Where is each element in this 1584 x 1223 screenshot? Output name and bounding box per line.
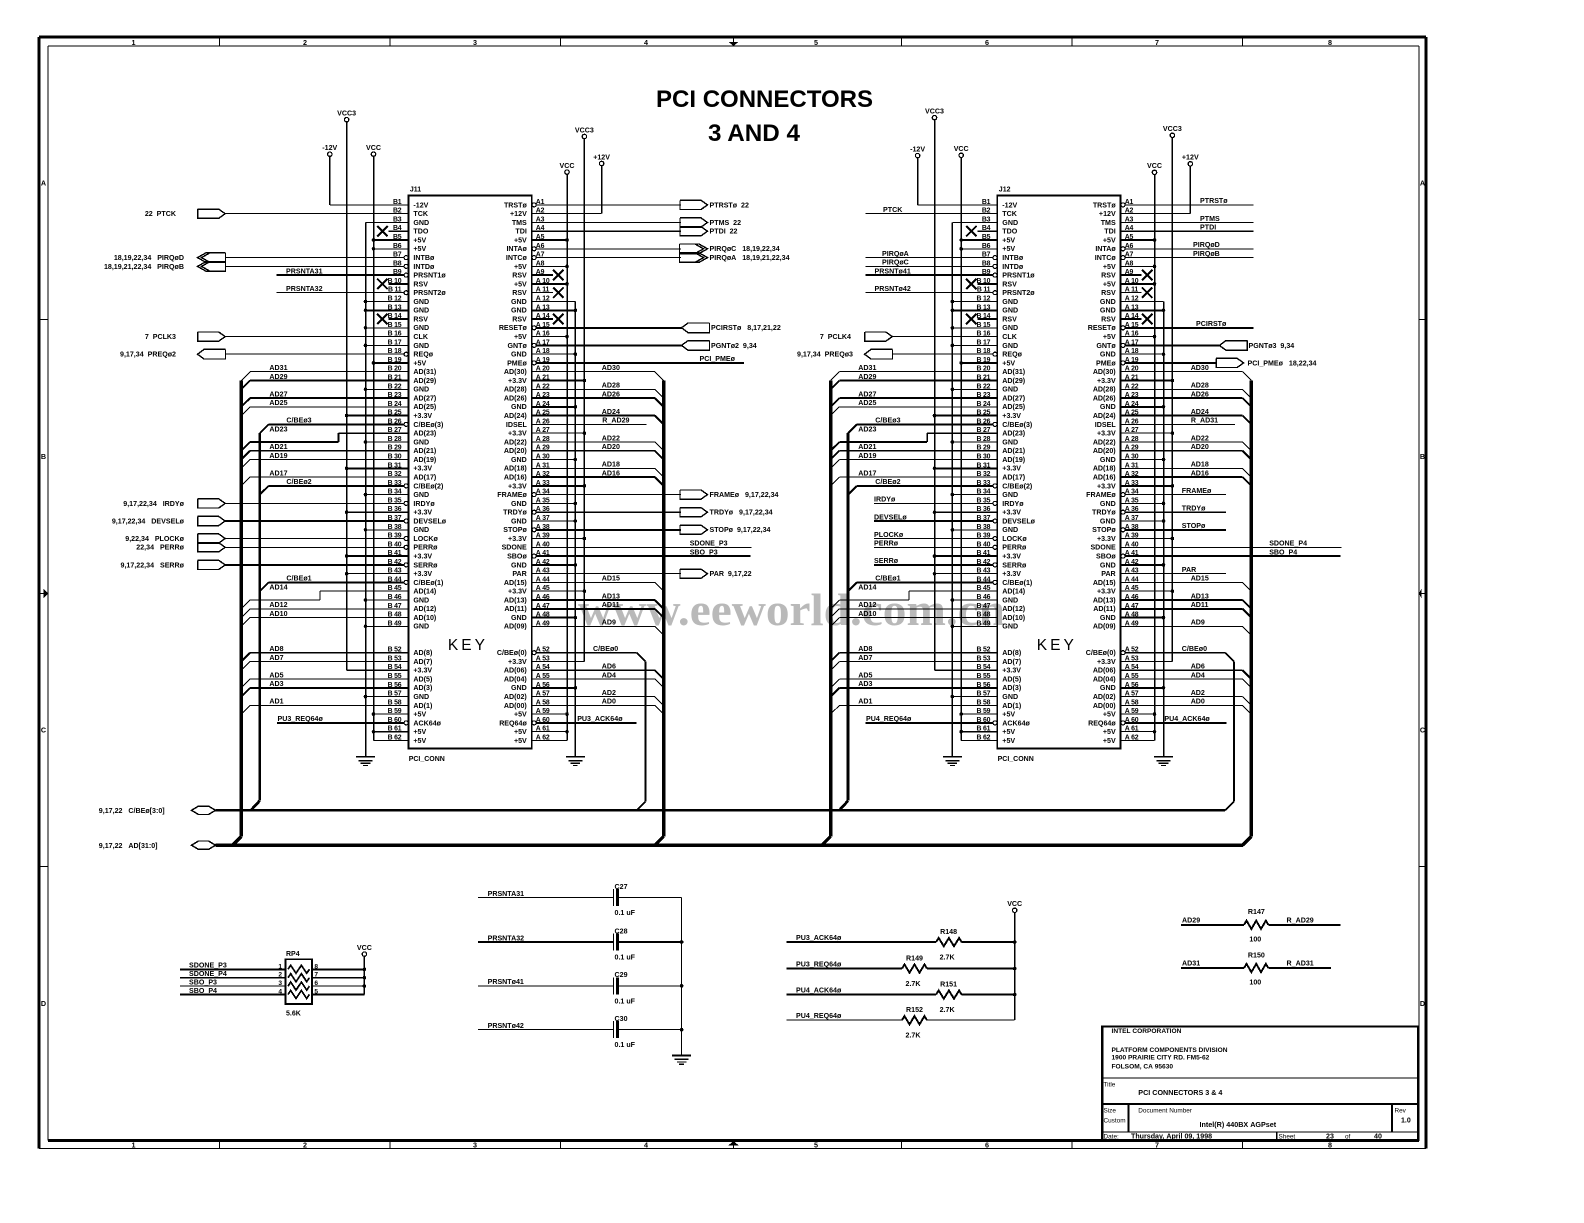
svg-text:AD(28): AD(28): [1093, 386, 1116, 394]
svg-text:+5V: +5V: [1002, 737, 1015, 745]
svg-text:PU4_ACK64ø: PU4_ACK64ø: [1164, 715, 1210, 723]
svg-text:AD4: AD4: [602, 671, 616, 679]
svg-text:2: 2: [278, 972, 282, 979]
resistor R152 2.7K net PU4_REQ64ø: [787, 1019, 903, 1021]
svg-text:R151: R151: [940, 981, 957, 989]
capacitor common ground vertical: [681, 898, 683, 1056]
svg-text:C/BEø(3): C/BEø(3): [1002, 421, 1033, 429]
svg-text:1: 1: [278, 963, 282, 970]
svg-text:PCI_PMEø: PCI_PMEø: [700, 355, 736, 363]
svg-text:AD(5): AD(5): [1002, 675, 1022, 683]
svg-text:AD(21): AD(21): [413, 447, 436, 455]
svg-text:GND: GND: [413, 219, 429, 227]
svg-text:0.1 uF: 0.1 uF: [615, 909, 636, 917]
series resistor R147 100 ohm: [1181, 924, 1244, 926]
svg-text:GND: GND: [413, 386, 429, 394]
svg-text:AD(10): AD(10): [413, 614, 436, 622]
svg-text:3: 3: [473, 1141, 477, 1150]
svg-text:GND: GND: [413, 324, 429, 332]
svg-text:AD31: AD31: [269, 364, 287, 372]
svg-text:GND: GND: [1100, 614, 1116, 622]
svg-text:AD0: AD0: [1191, 698, 1205, 706]
svg-text:GND: GND: [1100, 298, 1116, 306]
svg-text:AD(09): AD(09): [504, 623, 527, 631]
svg-text:R148: R148: [940, 928, 957, 936]
svg-text:GND: GND: [511, 298, 527, 306]
svg-text:GNTø: GNTø: [1096, 342, 1116, 350]
svg-text:Rev: Rev: [1395, 1107, 1407, 1114]
svg-text:GND: GND: [1002, 307, 1018, 315]
svg-text:9,17,22,34 IRDYø: 9,17,22,34 IRDYø: [123, 500, 184, 508]
svg-text:AD(25): AD(25): [1002, 403, 1025, 411]
svg-text:AD(06): AD(06): [504, 667, 527, 675]
svg-text:INTBø: INTBø: [413, 254, 435, 262]
ground symbol left of J12: [943, 756, 962, 758]
svg-text:SERRø: SERRø: [874, 557, 899, 565]
svg-text:VCC: VCC: [560, 162, 575, 170]
ground symbol left of J11: [356, 756, 375, 758]
svg-text:PRSNTA32: PRSNTA32: [286, 285, 323, 293]
svg-text:AD(17): AD(17): [1002, 474, 1025, 482]
svg-text:GND: GND: [1002, 526, 1018, 534]
svg-text:AD17: AD17: [858, 469, 876, 477]
svg-text:PIRQøD: PIRQøD: [1193, 241, 1220, 249]
svg-text:GND: GND: [413, 596, 429, 604]
svg-text:AD(02): AD(02): [1093, 693, 1116, 701]
svg-text:AD(26): AD(26): [504, 395, 527, 403]
svg-text:+5V: +5V: [413, 728, 426, 736]
svg-text:C/BEø3: C/BEø3: [875, 417, 900, 425]
svg-text:AD(11): AD(11): [504, 605, 527, 613]
ground symbol right of J11: [566, 756, 585, 758]
svg-text:+5V: +5V: [514, 737, 527, 745]
svg-text:AD0: AD0: [602, 698, 616, 706]
svg-text:PTCK: PTCK: [883, 206, 903, 214]
svg-text:1: 1: [132, 38, 136, 47]
ground rail left of J11: [365, 223, 367, 757]
svg-text:STOPø: STOPø: [503, 526, 527, 534]
RP4 pin 7 wire to VCC: [312, 977, 365, 979]
svg-text:AD(02): AD(02): [504, 693, 527, 701]
svg-text:AD23: AD23: [269, 426, 287, 434]
RP4 pin 2 net SDONE_P4: [180, 977, 286, 979]
svg-text:C/BEø(2): C/BEø(2): [1002, 482, 1033, 490]
svg-text:TMS: TMS: [1101, 219, 1116, 227]
svg-text:PRSNTA32: PRSNTA32: [488, 934, 525, 942]
svg-text:0.1 uF: 0.1 uF: [615, 954, 636, 962]
C/BE bus vertical left of J12: [847, 433, 850, 801]
svg-text:R147: R147: [1248, 908, 1265, 916]
svg-text:AD(16): AD(16): [504, 474, 527, 482]
svg-text:AD10: AD10: [269, 610, 287, 618]
svg-text:C/BEø2: C/BEø2: [875, 478, 900, 486]
svg-text:AD(00): AD(00): [1093, 702, 1116, 710]
svg-text:PCI_CONN: PCI_CONN: [409, 756, 445, 763]
svg-text:+3.3V: +3.3V: [508, 377, 527, 385]
svg-text:AD(16): AD(16): [1093, 474, 1116, 482]
svg-text:1900 PRAIRIE CITY RD. FM5-62: 1900 PRAIRIE CITY RD. FM5-62: [1112, 1055, 1210, 1062]
svg-text:RSV: RSV: [1101, 289, 1116, 297]
svg-text:GND: GND: [1100, 561, 1116, 569]
svg-text:9,17,22 AD[31:0]: 9,17,22 AD[31:0]: [99, 842, 158, 850]
svg-text:AD(13): AD(13): [1093, 596, 1116, 604]
svg-text:VCC: VCC: [1007, 900, 1022, 908]
svg-text:GND: GND: [1002, 491, 1018, 499]
svg-text:LOCKø: LOCKø: [413, 535, 438, 543]
svg-text:SERRø: SERRø: [1002, 561, 1027, 569]
svg-text:GND: GND: [413, 342, 429, 350]
svg-text:GNTø: GNTø: [507, 342, 527, 350]
svg-text:+3.3V: +3.3V: [508, 535, 527, 543]
svg-text:AD23: AD23: [858, 426, 876, 434]
svg-text:SBO_P4: SBO_P4: [1269, 548, 1297, 556]
svg-text:AD(15): AD(15): [504, 579, 527, 587]
svg-text:AD19: AD19: [858, 452, 876, 460]
svg-text:+3.3V: +3.3V: [508, 430, 527, 438]
svg-text:AD30: AD30: [1191, 364, 1209, 372]
svg-text:AD27: AD27: [858, 390, 876, 398]
svg-text:AD10: AD10: [858, 610, 876, 618]
svg-text:AD19: AD19: [269, 452, 287, 460]
AD bus vertical left of J12: [829, 381, 832, 837]
svg-text:C29: C29: [615, 971, 628, 979]
svg-text:7: 7: [1155, 38, 1159, 47]
svg-text:-12V: -12V: [1002, 201, 1017, 209]
svg-text:+5V: +5V: [413, 236, 426, 244]
svg-text:-12V: -12V: [413, 201, 428, 209]
svg-text:ACK64ø: ACK64ø: [413, 719, 441, 727]
svg-text:AD(23): AD(23): [413, 430, 436, 438]
svg-text:R150: R150: [1248, 951, 1265, 959]
svg-text:+5V: +5V: [514, 728, 527, 736]
svg-text:PRSNTø41: PRSNTø41: [488, 978, 524, 986]
ground rail right of J12: [1163, 302, 1165, 757]
RP4 pin 6 wire to VCC: [312, 985, 365, 987]
svg-text:+5V: +5V: [1002, 359, 1015, 367]
svg-text:AD(11): AD(11): [1093, 605, 1116, 613]
svg-text:4: 4: [644, 1141, 648, 1150]
svg-text:AD(21): AD(21): [1002, 447, 1025, 455]
capacitor C29 net PRSNTø41: [478, 985, 614, 987]
svg-text:+5V: +5V: [514, 333, 527, 341]
svg-text:GND: GND: [1002, 324, 1018, 332]
svg-text:PTMS: PTMS: [1200, 215, 1220, 223]
svg-text:AD31: AD31: [858, 364, 876, 372]
svg-text:AD31: AD31: [1182, 960, 1200, 968]
svg-text:TRDYø 9,17,22,34: TRDYø 9,17,22,34: [710, 509, 773, 517]
svg-text:C/BEø1: C/BEø1: [875, 575, 900, 583]
svg-text:PAR: PAR: [512, 570, 526, 578]
svg-text:CLK: CLK: [1002, 333, 1017, 341]
svg-text:RSV: RSV: [413, 315, 428, 323]
svg-text:AD(3): AD(3): [1002, 684, 1022, 692]
svg-text:+5V: +5V: [1002, 245, 1015, 253]
svg-text:PTMS 22: PTMS 22: [710, 219, 742, 227]
svg-text:AD(5): AD(5): [413, 675, 433, 683]
svg-text:+3.3V: +3.3V: [1097, 658, 1116, 666]
svg-text:1.0: 1.0: [1401, 1118, 1411, 1125]
svg-text:PRSNTø42: PRSNTø42: [875, 285, 911, 293]
svg-text:PCI_PMEø 18,22,34: PCI_PMEø 18,22,34: [1248, 359, 1317, 367]
svg-text:INTDø: INTDø: [413, 263, 435, 271]
svg-text:AD(06): AD(06): [1093, 667, 1116, 675]
svg-text:AD(20): AD(20): [504, 447, 527, 455]
connector J12 PCI_CONN body: [997, 195, 1120, 748]
svg-text:PRSNT2ø: PRSNT2ø: [1002, 289, 1035, 297]
svg-text:3 AND 4: 3 AND 4: [708, 120, 801, 147]
svg-text:VCC3: VCC3: [925, 108, 944, 116]
svg-text:INTAø: INTAø: [506, 245, 527, 253]
svg-text:AD4: AD4: [1191, 671, 1205, 679]
svg-text:AD(27): AD(27): [1002, 395, 1025, 403]
svg-text:PAR: PAR: [1182, 566, 1196, 574]
svg-text:PTDI 22: PTDI 22: [710, 228, 738, 236]
svg-text:of: of: [1345, 1134, 1351, 1141]
svg-text:INTEL CORPORATION: INTEL CORPORATION: [1112, 1028, 1182, 1035]
svg-text:PCI CONNECTORS: PCI CONNECTORS: [656, 86, 873, 113]
svg-text:PU4_ACK64ø: PU4_ACK64ø: [796, 986, 842, 994]
svg-text:GND: GND: [413, 623, 429, 631]
svg-text:VCC: VCC: [954, 145, 969, 153]
svg-text:AD28: AD28: [1191, 382, 1209, 390]
svg-text:C: C: [41, 725, 46, 734]
svg-text:GND: GND: [1002, 342, 1018, 350]
svg-text:IRDYø: IRDYø: [874, 496, 896, 504]
svg-text:5: 5: [814, 38, 818, 47]
svg-text:AD(3): AD(3): [413, 684, 433, 692]
svg-text:GND: GND: [511, 561, 527, 569]
svg-text:SDONE_P3: SDONE_P3: [189, 962, 227, 970]
svg-text:+5V: +5V: [1103, 333, 1116, 341]
svg-text:PTRSTø 22: PTRSTø 22: [710, 201, 749, 209]
svg-text:PGNTø2 9,34: PGNTø2 9,34: [711, 342, 757, 350]
svg-text:TRDYø: TRDYø: [1182, 505, 1206, 513]
svg-text:+3.3V: +3.3V: [1002, 465, 1021, 473]
svg-text:GND: GND: [1100, 307, 1116, 315]
svg-text:+12V: +12V: [1099, 210, 1116, 218]
svg-text:C/BEø0: C/BEø0: [1182, 645, 1207, 653]
svg-text:TRSTø: TRSTø: [504, 201, 528, 209]
svg-text:PLOCKø: PLOCKø: [874, 531, 904, 539]
svg-text:AD15: AD15: [1191, 575, 1209, 583]
svg-text:AD29: AD29: [269, 373, 287, 381]
svg-text:C/BEø1: C/BEø1: [286, 575, 311, 583]
svg-text:+5V: +5V: [1103, 263, 1116, 271]
svg-text:+5V: +5V: [413, 737, 426, 745]
svg-text:+12V: +12V: [510, 210, 527, 218]
svg-text:STOPø 9,17,22,34: STOPø 9,17,22,34: [710, 526, 771, 534]
svg-text:+5V: +5V: [1103, 728, 1116, 736]
svg-text:GND: GND: [511, 307, 527, 315]
svg-text:KEY: KEY: [448, 637, 488, 654]
svg-text:SBO_P3: SBO_P3: [189, 978, 217, 986]
svg-text:GND: GND: [413, 307, 429, 315]
resistor R149 2.7K net PU3_REQ64ø: [787, 968, 903, 970]
svg-text:ACK64ø: ACK64ø: [1002, 719, 1030, 727]
svg-text:C27: C27: [615, 883, 628, 891]
svg-text:+3.3V: +3.3V: [508, 658, 527, 666]
svg-text:INTCø: INTCø: [1095, 254, 1117, 262]
svg-text:5.6K: 5.6K: [286, 1011, 301, 1018]
svg-text:DEVSELø: DEVSELø: [413, 517, 446, 525]
title block: [1102, 1026, 1418, 1140]
svg-text:6: 6: [985, 1141, 989, 1150]
svg-text:Custom: Custom: [1104, 1118, 1126, 1125]
svg-text:PU3_ACK64ø: PU3_ACK64ø: [577, 715, 623, 723]
svg-text:RESETø: RESETø: [499, 324, 528, 332]
svg-text:9,17,34 PREQø2: 9,17,34 PREQø2: [120, 351, 176, 359]
svg-text:GND: GND: [1100, 684, 1116, 692]
svg-text:FOLSOM, CA 95630: FOLSOM, CA 95630: [1112, 1063, 1174, 1070]
svg-text:+5V: +5V: [514, 711, 527, 719]
svg-text:+5V: +5V: [1103, 711, 1116, 719]
svg-text:GND: GND: [511, 684, 527, 692]
svg-text:7 PCLK3: 7 PCLK3: [145, 333, 176, 341]
svg-text:GND: GND: [1100, 500, 1116, 508]
svg-text:+3.3V: +3.3V: [1002, 667, 1021, 675]
svg-text:RSV: RSV: [1101, 272, 1116, 280]
svg-text:D: D: [1420, 999, 1425, 1008]
svg-text:AD(26): AD(26): [1093, 395, 1116, 403]
resistor R151 2.7K net PU4_ACK64ø: [787, 994, 937, 996]
svg-text:AD(14): AD(14): [1002, 588, 1025, 596]
svg-text:AD(14): AD(14): [413, 588, 436, 596]
svg-text:AD27: AD27: [269, 390, 287, 398]
svg-text:+5V: +5V: [514, 263, 527, 271]
svg-text:AD(7): AD(7): [413, 658, 433, 666]
svg-text:AD3: AD3: [269, 680, 283, 688]
connector J11 PCI_CONN body: [408, 195, 531, 748]
svg-text:4: 4: [278, 989, 282, 996]
svg-text:AD5: AD5: [858, 671, 872, 679]
svg-text:STOPø: STOPø: [1092, 526, 1116, 534]
svg-text:PTDI: PTDI: [1200, 224, 1216, 232]
svg-text:9,17,22,34 DEVSELø: 9,17,22,34 DEVSELø: [112, 517, 185, 525]
svg-text:R149: R149: [906, 955, 923, 963]
svg-text:AD(30): AD(30): [1093, 368, 1116, 376]
svg-text:C/BEø(0): C/BEø(0): [1086, 649, 1117, 657]
svg-text:Document Number: Document Number: [1138, 1107, 1193, 1114]
svg-text:C/BEø(3): C/BEø(3): [413, 421, 444, 429]
svg-text:9,17,34 PREQø3: 9,17,34 PREQø3: [797, 351, 853, 359]
svg-text:0.1 uF: 0.1 uF: [615, 997, 636, 1005]
svg-text:D: D: [41, 999, 46, 1008]
svg-text:PU4_REQ64ø: PU4_REQ64ø: [866, 715, 912, 723]
svg-text:AD(18): AD(18): [1093, 465, 1116, 473]
svg-text:AD16: AD16: [1191, 469, 1209, 477]
svg-text:AD24: AD24: [602, 408, 620, 416]
svg-text:B: B: [1420, 452, 1425, 461]
svg-text:23: 23: [1326, 1133, 1334, 1141]
svg-text:SDONE: SDONE: [1090, 544, 1115, 552]
series resistor R150 100 ohm: [1181, 967, 1244, 969]
svg-text:AD(23): AD(23): [1002, 430, 1025, 438]
svg-text:AD25: AD25: [858, 399, 876, 407]
svg-text:Intel(R) 440BX AGPset: Intel(R) 440BX AGPset: [1200, 1120, 1277, 1129]
svg-text:REQ64ø: REQ64ø: [1088, 719, 1116, 727]
svg-text:AD18: AD18: [1191, 461, 1209, 469]
bus C/BE#[3:0] horizontal: [216, 809, 1226, 812]
svg-text:INTAø: INTAø: [1095, 245, 1116, 253]
svg-text:100: 100: [1249, 936, 1261, 944]
svg-text:GND: GND: [413, 693, 429, 701]
RP4 pin 8 wire to VCC: [312, 968, 365, 970]
svg-text:FRAMEø: FRAMEø: [1182, 487, 1212, 495]
svg-text:AD1: AD1: [269, 698, 283, 706]
resistor pack RP4: [286, 959, 312, 1004]
svg-text:IDSEL: IDSEL: [1095, 421, 1117, 429]
svg-text:C/BEø(1): C/BEø(1): [413, 579, 444, 587]
RP4 pin 4 net SBO_P4: [180, 994, 286, 996]
ground symbol at capacitors: [672, 1055, 691, 1057]
svg-text:+3.3V: +3.3V: [413, 570, 432, 578]
svg-text:PIRQøC 18,19,22,34: PIRQøC 18,19,22,34: [710, 245, 780, 253]
svg-text:AD(10): AD(10): [1002, 614, 1025, 622]
svg-text:GND: GND: [1002, 219, 1018, 227]
svg-text:AD(12): AD(12): [413, 605, 436, 613]
svg-text:AD(8): AD(8): [1002, 649, 1022, 657]
svg-text:8: 8: [1328, 38, 1332, 47]
ground rail right of J11: [574, 302, 576, 757]
svg-text:GND: GND: [413, 526, 429, 534]
RP4 VCC vertical: [363, 956, 365, 994]
pull-up VCC vertical: [1014, 913, 1016, 1021]
svg-text:AD20: AD20: [1191, 443, 1209, 451]
svg-text:+5V: +5V: [1103, 236, 1116, 244]
svg-text:GND: GND: [511, 456, 527, 464]
svg-text:7 PCLK4: 7 PCLK4: [820, 333, 851, 341]
svg-text:Date:: Date:: [1104, 1134, 1119, 1141]
svg-text:AD16: AD16: [602, 469, 620, 477]
svg-text:AD(04): AD(04): [504, 675, 527, 683]
svg-text:AD28: AD28: [602, 382, 620, 390]
svg-text:AD7: AD7: [269, 654, 283, 662]
svg-text:C/BEø2: C/BEø2: [286, 478, 311, 486]
svg-text:STOPø: STOPø: [1182, 522, 1206, 530]
svg-text:GND: GND: [413, 438, 429, 446]
svg-text:TDI: TDI: [515, 228, 526, 236]
svg-text:KEY: KEY: [1037, 637, 1077, 654]
svg-text:AD24: AD24: [1191, 408, 1209, 416]
svg-text:AD21: AD21: [858, 443, 876, 451]
svg-text:VCC3: VCC3: [337, 110, 356, 118]
svg-text:AD(27): AD(27): [413, 395, 436, 403]
resistor R148 2.7K net PU3_ACK64ø: [787, 941, 937, 943]
ground symbol right of J12: [1154, 756, 1173, 758]
svg-text:AD(13): AD(13): [504, 596, 527, 604]
svg-text:AD(22): AD(22): [504, 438, 527, 446]
svg-text:AD(20): AD(20): [1093, 447, 1116, 455]
svg-text:+5V: +5V: [1002, 728, 1015, 736]
svg-text:TDI: TDI: [1104, 228, 1115, 236]
svg-text:AD(04): AD(04): [1093, 675, 1116, 683]
svg-text:SBOø: SBOø: [507, 553, 527, 561]
svg-text:PU4_REQ64ø: PU4_REQ64ø: [796, 1012, 842, 1020]
svg-text:GND: GND: [1002, 438, 1018, 446]
svg-text:TRDYø: TRDYø: [503, 509, 527, 517]
svg-text:GND: GND: [511, 403, 527, 411]
svg-text:C/BEø(2): C/BEø(2): [413, 482, 444, 490]
svg-text:REQø: REQø: [413, 351, 433, 359]
svg-text:C30: C30: [615, 1015, 628, 1023]
svg-text:+3.3V: +3.3V: [508, 482, 527, 490]
svg-text:AD15: AD15: [602, 575, 620, 583]
svg-text:AD(18): AD(18): [504, 465, 527, 473]
svg-text:R_AD29: R_AD29: [602, 417, 629, 425]
svg-text:AD22: AD22: [1191, 434, 1209, 442]
svg-text:PERRø: PERRø: [1002, 544, 1027, 552]
svg-text:PRSNTø41: PRSNTø41: [875, 267, 911, 275]
